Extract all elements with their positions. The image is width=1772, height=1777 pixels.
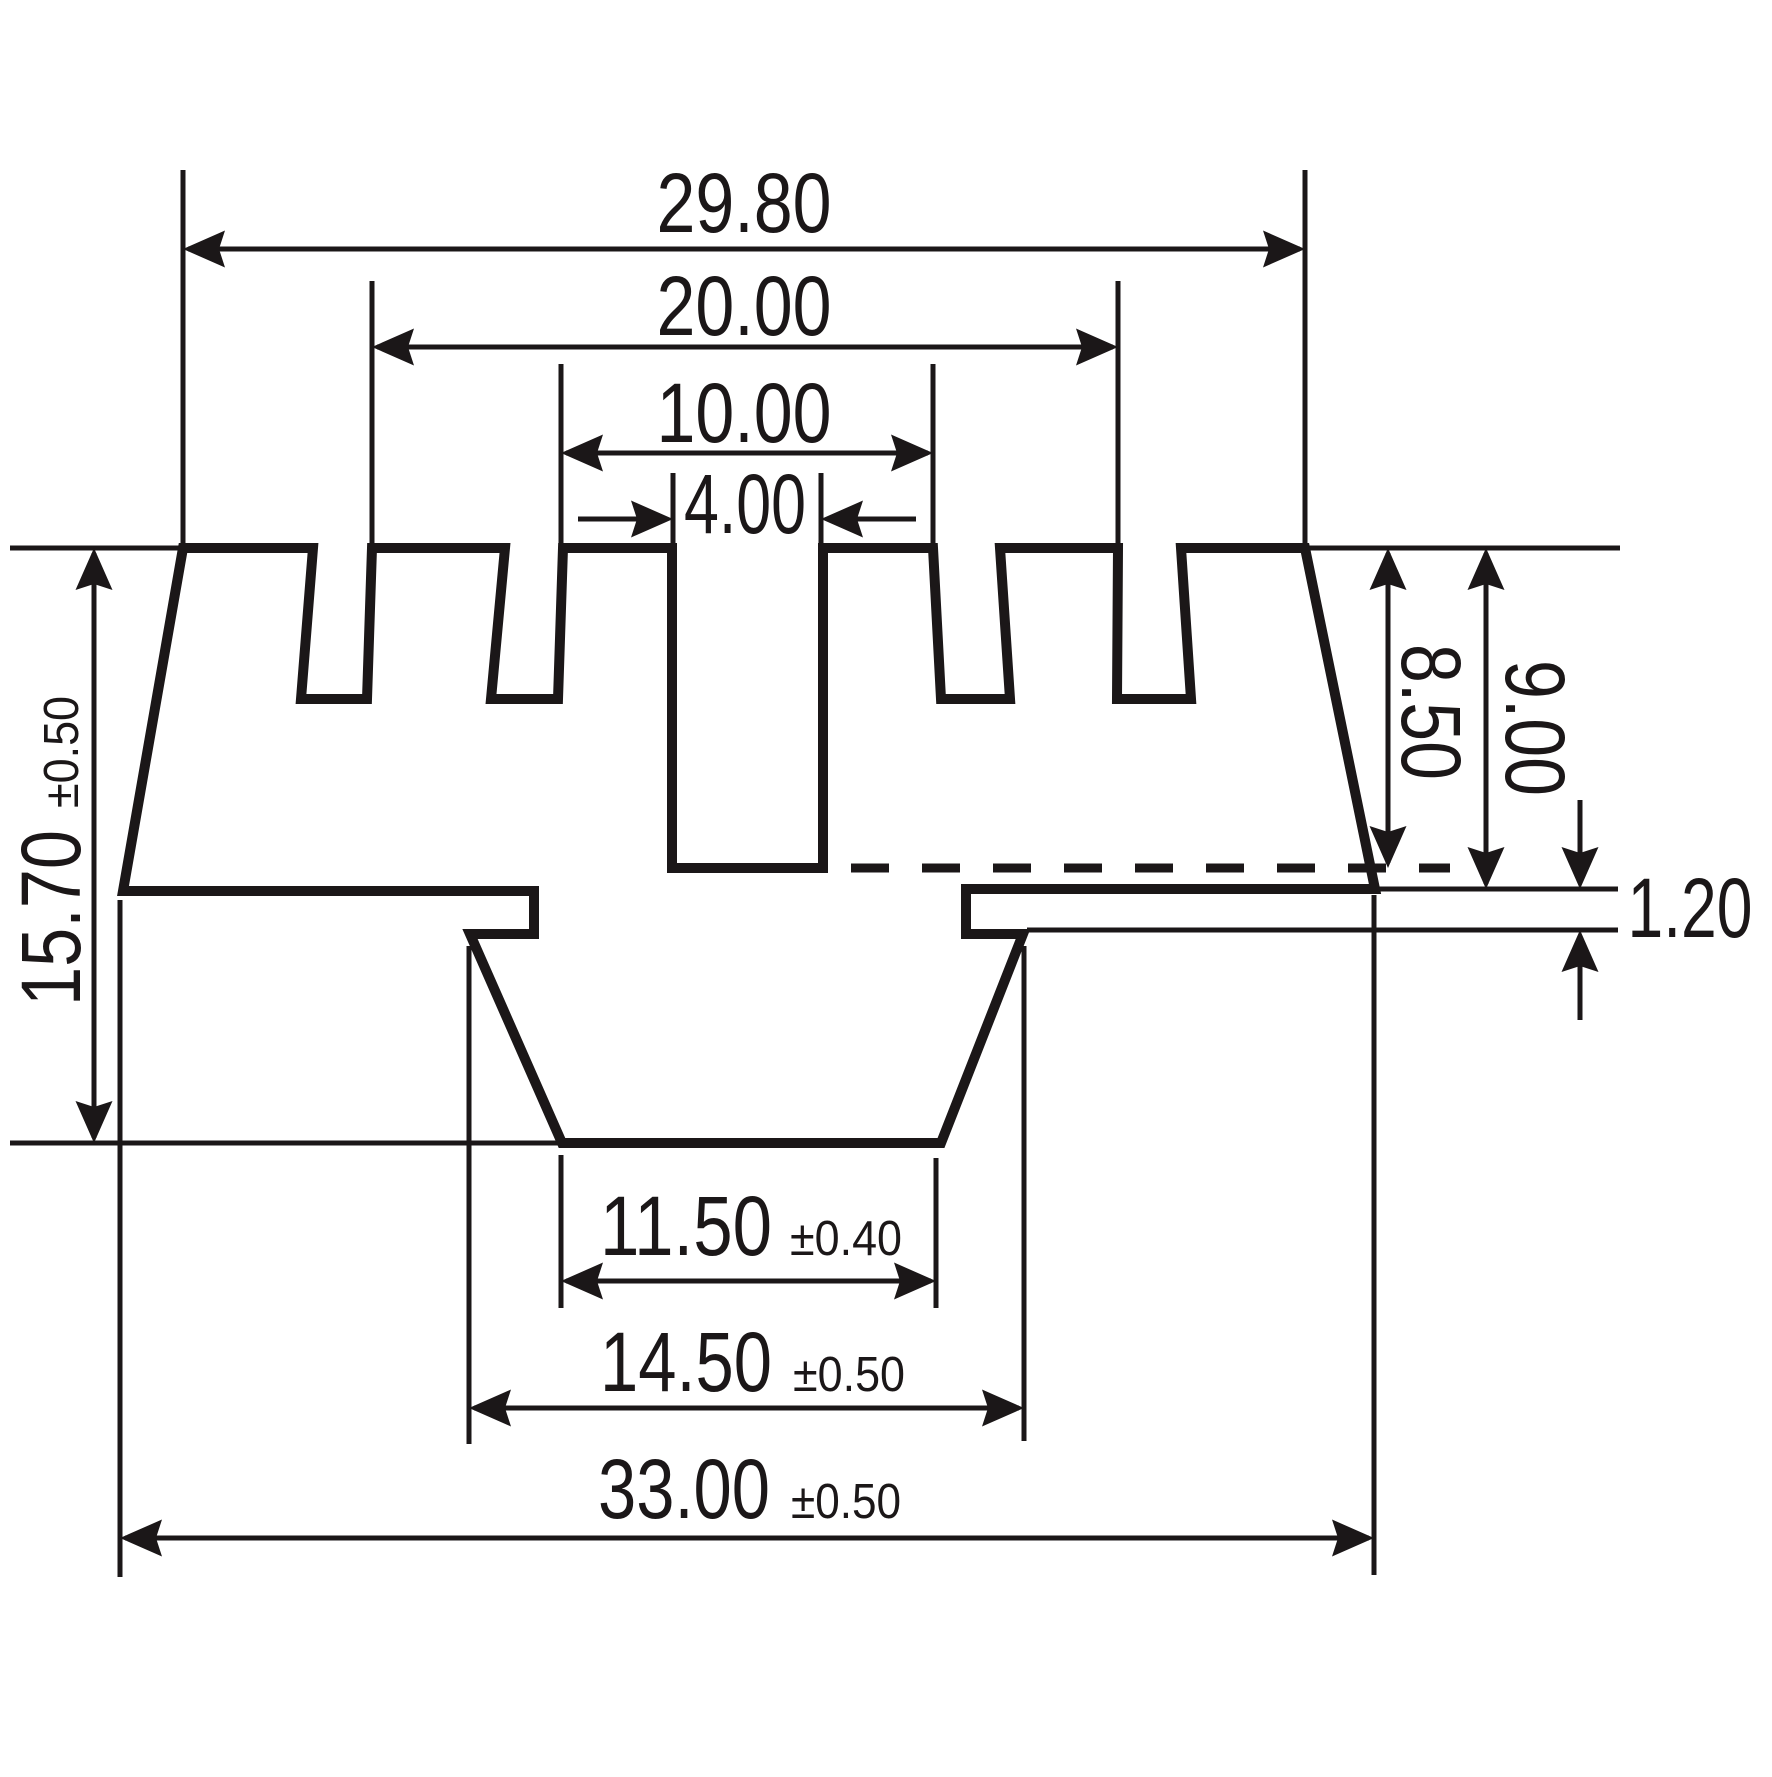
dimension 4.00 right arrow [834, 517, 916, 522]
dashed reference line at slot-bottom level [851, 864, 1450, 873]
svg-text:±0.50: ±0.50 [791, 1475, 901, 1529]
dimension line 20.00 [377, 345, 1113, 350]
thin top surface reference line right [1308, 546, 1620, 551]
dimension line 14.50 [474, 1406, 1019, 1411]
dimension line 11.50 [566, 1279, 931, 1284]
thin bottom reference line [10, 1141, 560, 1146]
dimension line 9.00 vertical [1484, 553, 1489, 884]
dimension line 8.50 vertical [1386, 553, 1391, 863]
svg-text:14.50: 14.50 [600, 1315, 772, 1409]
dimension line 10.00 [566, 451, 928, 456]
svg-text:20.00: 20.00 [657, 259, 832, 353]
svg-text:15.70: 15.70 [4, 830, 98, 1006]
svg-text:10.00: 10.00 [657, 366, 832, 460]
extension line 33.00 left [118, 900, 123, 1577]
svg-text:±0.40: ±0.40 [790, 1212, 902, 1266]
svg-text:33.00: 33.00 [598, 1442, 770, 1536]
flange bottom extension line [1027, 928, 1618, 933]
extension line 14.50 right [1022, 946, 1027, 1441]
extension line 20.00 left [370, 281, 375, 544]
svg-text:29.80: 29.80 [657, 156, 832, 250]
flange top extension line [1379, 887, 1618, 892]
profile outline of rubber foot cross-section [123, 548, 1375, 1143]
extension line 10.00 right [931, 364, 936, 544]
extension line 11.50 right [934, 1158, 939, 1308]
extension tick 4.00 right [819, 473, 824, 545]
extension line 14.50 left [467, 946, 472, 1444]
extension line 20.00 right [1116, 281, 1121, 544]
dimension 1.20 upper arrow [1578, 800, 1583, 876]
extension line 29.80 left [181, 170, 186, 544]
svg-text:1.20: 1.20 [1628, 861, 1753, 955]
thin top surface reference line left [10, 546, 180, 551]
svg-text:11.50: 11.50 [600, 1179, 772, 1273]
extension line 11.50 left [559, 1155, 564, 1308]
extension tick 4.00 left [671, 473, 676, 545]
svg-text:4.00: 4.00 [684, 457, 806, 551]
svg-text:9.00: 9.00 [1488, 660, 1582, 796]
dimension 1.20 lower arrow [1578, 943, 1583, 1020]
svg-text:±0.50: ±0.50 [793, 1348, 905, 1402]
extension line 29.80 right [1303, 170, 1308, 544]
dimension line 29.80 [188, 247, 1300, 252]
svg-text:±0.50: ±0.50 [35, 696, 89, 808]
dimension 4.00 left arrow [578, 517, 660, 522]
dimension line 15.70 vertical [92, 553, 97, 1138]
dimension line 33.00 [125, 1536, 1369, 1541]
svg-text:8.50: 8.50 [1384, 644, 1478, 780]
extension line 10.00 left [559, 364, 564, 544]
extension line 33.00 right [1372, 895, 1377, 1575]
